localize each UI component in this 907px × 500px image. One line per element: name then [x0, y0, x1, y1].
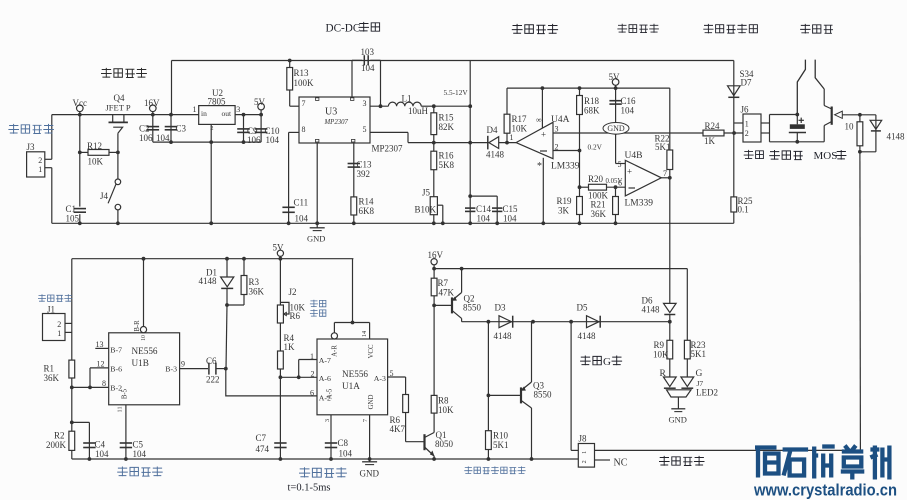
wire cap array left bar	[769, 115, 771, 142]
wire C11 branch	[288, 132, 290, 223]
svg-text:GND: GND	[360, 469, 380, 479]
svg-text:10K: 10K	[653, 350, 669, 360]
capacitor C1	[74, 208, 86, 210]
svg-text:C7: C7	[256, 433, 267, 443]
svg-text:12: 12	[97, 360, 105, 369]
svg-text:1K: 1K	[284, 342, 296, 352]
wire Q3 base	[488, 394, 521, 396]
svg-text:*: *	[537, 161, 542, 172]
wire gate net to J8 pin1	[570, 322, 572, 451]
svg-text:t=0.1-5ms: t=0.1-5ms	[288, 483, 331, 494]
wire J1 pin1 stub	[65, 331, 72, 333]
welding pin left	[797, 60, 805, 115]
svg-text:6K8: 6K8	[359, 206, 375, 216]
wire riser rail A to rail B	[171, 61, 173, 115]
label electronic switch	[101, 68, 147, 78]
svg-text:104: 104	[133, 449, 147, 459]
wire C6 to A-2	[226, 369, 317, 396]
svg-text:R8: R8	[438, 396, 449, 406]
svg-text:36K: 36K	[591, 209, 607, 219]
svg-text:MOS: MOS	[814, 150, 838, 162]
wire R17 branch	[506, 88, 508, 143]
svg-text:C15: C15	[503, 204, 519, 214]
wire C15 branch	[470, 195, 497, 197]
svg-text:105: 105	[66, 214, 80, 224]
svg-text:R1: R1	[44, 364, 55, 374]
resistor R18 68K	[577, 96, 583, 115]
capacitor C10 104	[255, 128, 268, 130]
svg-text:10K: 10K	[512, 124, 528, 134]
wire pin13 NC stub	[95, 347, 108, 349]
svg-text:1: 1	[57, 329, 61, 338]
label adjust (blue)	[310, 309, 326, 316]
svg-text:R2: R2	[54, 431, 65, 441]
watermark logo	[755, 448, 779, 478]
label foot switch (blue)	[38, 294, 72, 301]
svg-text:104: 104	[266, 135, 280, 145]
svg-text:10: 10	[845, 122, 855, 132]
wire gate resistor branch	[859, 115, 861, 152]
svg-text:5V: 5V	[273, 243, 285, 253]
wire divider to D4	[434, 142, 488, 144]
node R13 top	[288, 59, 292, 63]
svg-text:R20: R20	[588, 174, 604, 184]
wire VCC feed	[334, 322, 369, 324]
diode D1 4148	[221, 277, 234, 287]
label capacitor array	[769, 150, 803, 160]
terminal 5V bottom	[277, 250, 283, 256]
svg-text:GND: GND	[669, 415, 687, 425]
svg-text:11: 11	[117, 406, 124, 412]
label current-limit charging	[512, 24, 558, 34]
wire to R12	[80, 151, 88, 153]
svg-text:8: 8	[102, 379, 106, 388]
wire A-7/A-6 tie	[298, 360, 300, 378]
svg-text:C1: C1	[66, 204, 77, 214]
potentiometer J2 10K R6 delay adjust	[277, 305, 283, 323]
svg-text:J4: J4	[100, 191, 109, 201]
capacitor C5 104	[120, 442, 132, 444]
svg-text:B-7: B-7	[110, 346, 122, 355]
svg-text:5K1: 5K1	[655, 142, 671, 152]
wire U4A V+ power	[541, 88, 543, 128]
svg-text:5V: 5V	[609, 72, 621, 82]
node R17/D4	[505, 141, 509, 145]
svg-text:D7: D7	[741, 78, 752, 88]
diode D5 4148	[587, 316, 600, 328]
wire 5V reference rail	[507, 87, 670, 89]
svg-text:106: 106	[139, 133, 153, 143]
wire R4 to C7 to rail	[279, 369, 281, 459]
svg-text:104: 104	[621, 106, 635, 116]
resistor R4 1K	[278, 351, 284, 369]
wire 5V rail to U1A VCC	[352, 259, 354, 323]
svg-text:5K1: 5K1	[493, 440, 509, 450]
transistor Q4 JFET P	[112, 115, 114, 123]
svg-text:DC-DC: DC-DC	[326, 23, 361, 35]
terminal 5V ref	[612, 79, 619, 86]
svg-text:R3: R3	[249, 277, 260, 287]
wire D1 from 5V rail	[226, 259, 228, 278]
resistor R17 10K	[504, 114, 510, 133]
svg-text:100K: 100K	[294, 78, 315, 88]
welding pin right	[815, 60, 824, 89]
svg-text:U1B: U1B	[132, 358, 149, 368]
wire R22/D6 chain	[669, 88, 671, 303]
wire J6 pin1 stub	[734, 122, 743, 124]
svg-text:7805: 7805	[208, 97, 227, 107]
svg-text:1K: 1K	[704, 136, 716, 146]
wire C3 branch	[170, 115, 172, 143]
svg-text:C6: C6	[206, 356, 217, 366]
wire to A-6	[299, 376, 317, 378]
wire Q2 base	[434, 304, 452, 306]
svg-text:47K: 47K	[439, 288, 455, 298]
node Vcc on rail B	[78, 113, 82, 117]
svg-text:J2: J2	[289, 287, 297, 297]
inductor L1 10uH	[388, 102, 421, 106]
wire C13/R14 branch	[353, 143, 355, 223]
op-amp U4B LM339	[625, 160, 661, 196]
pin B-R reset circle	[140, 327, 146, 333]
svg-text:C16: C16	[621, 96, 637, 106]
svg-text:LM339: LM339	[625, 199, 654, 209]
svg-text:474: 474	[256, 444, 270, 454]
resistor R21 36K	[613, 197, 619, 215]
wire GND pin down	[369, 415, 371, 459]
svg-text:C11: C11	[294, 198, 309, 208]
wire R3 from 5V rail	[243, 259, 245, 276]
svg-text:2: 2	[745, 129, 749, 138]
svg-text:U3: U3	[325, 107, 337, 118]
wire J8 pin1 to gate net right	[595, 449, 861, 451]
capacitor C15 104	[492, 207, 502, 209]
svg-text:www.crystalradio.cn: www.crystalradio.cn	[753, 482, 897, 500]
node C3 top	[169, 113, 173, 117]
wire to A-7	[299, 359, 317, 361]
node 16V/C2	[151, 113, 155, 117]
svg-text:A-6: A-6	[319, 374, 331, 383]
Q4 gate arrow	[113, 127, 122, 133]
LED common cathode plate	[667, 390, 692, 397]
diode D7 S34	[728, 86, 741, 96]
svg-text:0.1: 0.1	[738, 205, 749, 215]
wire 16V rail bottom circuit	[434, 268, 687, 270]
svg-text:A-3: A-3	[374, 374, 386, 383]
resistor R20 100K	[589, 184, 607, 190]
wire U3 pin5 FB	[370, 131, 408, 133]
svg-text:4148: 4148	[642, 305, 661, 315]
capacitor C13 392	[348, 163, 360, 165]
svg-text:68K: 68K	[584, 106, 600, 116]
ground symbol under U3	[316, 223, 318, 228]
label welding pins	[800, 24, 833, 34]
svg-text:U4B: U4B	[625, 151, 643, 161]
svg-text:Vcc: Vcc	[73, 98, 88, 108]
resistor R15 82K	[431, 113, 437, 135]
transistor Q3 8550	[520, 387, 522, 403]
capacitor C7 474	[274, 442, 286, 444]
svg-text:NE556: NE556	[132, 346, 158, 356]
wire R10 branch	[487, 322, 489, 459]
resistor R25 0.1	[731, 197, 737, 212]
wire R21 branch	[615, 187, 617, 223]
svg-text:2: 2	[311, 370, 315, 379]
wire C10 branch	[260, 115, 262, 143]
svg-text:NE556: NE556	[342, 369, 368, 379]
wire FET gate drive	[462, 321, 670, 323]
svg-text:7: 7	[663, 169, 667, 178]
connector J8 status	[578, 444, 594, 468]
svg-text:7: 7	[362, 418, 369, 422]
svg-text:R21: R21	[591, 200, 606, 210]
resistor R3 36K	[241, 276, 247, 295]
wire cap ground bus	[153, 141, 261, 143]
capacitor C4 104	[83, 442, 95, 444]
wire U4B pin5 stub	[616, 163, 626, 165]
wire R18/R19 chain	[579, 88, 581, 223]
svg-text:1: 1	[510, 133, 514, 142]
capacitor C3 104	[165, 126, 178, 128]
svg-text:1: 1	[193, 105, 197, 114]
wire C9 branch	[243, 115, 245, 143]
capacitor C11 104	[282, 206, 294, 208]
capacitor C16 104	[609, 100, 621, 102]
wire U3 pin8 stub	[289, 131, 299, 133]
resistor R1 36K	[69, 360, 75, 378]
wire U3 pin3 to L1	[370, 105, 388, 107]
svg-text:2: 2	[581, 460, 588, 463]
svg-text:4148: 4148	[578, 331, 597, 341]
diode D4 4148	[487, 136, 489, 150]
wire C4 top stub	[72, 421, 90, 423]
svg-text:A-7: A-7	[319, 356, 331, 365]
svg-text:∞: ∞	[536, 116, 542, 125]
pin A-R circle	[331, 333, 337, 339]
wire J1/R1/R2 vertical	[71, 259, 73, 459]
terminal 16V	[150, 105, 157, 112]
wire to snubber diode	[860, 114, 876, 116]
wire ground rail C	[52, 222, 734, 224]
svg-text:D3: D3	[495, 303, 506, 313]
svg-text:B-3: B-3	[165, 365, 177, 374]
svg-text:G: G	[603, 356, 611, 368]
wire L1 out to riser	[434, 105, 470, 107]
label charge indicator	[617, 24, 659, 33]
svg-text:8550: 8550	[534, 390, 553, 400]
svg-text:36K: 36K	[249, 287, 265, 297]
svg-text:4148: 4148	[486, 150, 505, 160]
capacitor C6 222	[208, 363, 210, 375]
wire C16/GND/pin5 chain	[615, 88, 617, 163]
svg-text:R13: R13	[294, 68, 310, 78]
svg-text:106: 106	[247, 135, 261, 145]
wire to B-6	[90, 367, 109, 369]
wire U2 out to 5V node	[235, 114, 261, 116]
diode 4148 snubber	[870, 120, 882, 129]
wire B-6/B-2 tie	[89, 368, 91, 388]
svg-text:R14: R14	[359, 197, 375, 207]
node 5V/C10	[259, 113, 263, 117]
wire J8 pin2 NC stub	[595, 459, 611, 461]
svg-text:MP2307: MP2307	[372, 144, 404, 154]
label FET G gate	[580, 356, 601, 366]
wire MOS gate	[842, 114, 860, 116]
switch J4 lever	[108, 184, 116, 203]
svg-text:10K: 10K	[438, 405, 454, 415]
svg-text:8550: 8550	[463, 303, 482, 313]
svg-text:R9: R9	[654, 340, 665, 350]
wire to J4	[117, 152, 119, 179]
svg-text:6: 6	[310, 389, 314, 398]
svg-text:14: 14	[361, 331, 368, 337]
svg-text:5: 5	[363, 125, 367, 134]
svg-text:4148: 4148	[494, 331, 513, 341]
label charging	[744, 150, 764, 159]
svg-text:C13: C13	[357, 160, 373, 170]
resistor R10 5K1	[486, 431, 492, 450]
svg-text:5: 5	[618, 160, 622, 169]
svg-text:R: R	[660, 369, 667, 379]
svg-text:GND: GND	[607, 124, 625, 133]
svg-text:in: in	[201, 109, 207, 118]
wire Q4 gate down	[117, 133, 119, 152]
wire rail B Vcc/16V	[52, 114, 199, 116]
wire VCC pin stub	[369, 323, 371, 340]
label DC power supply (blue)	[8, 124, 54, 134]
wire riser rail A to ground via C14	[469, 61, 471, 224]
wire A-3 output	[388, 376, 406, 378]
svg-text:B-R: B-R	[134, 320, 141, 332]
svg-text:R18: R18	[584, 96, 600, 106]
svg-text:104: 104	[477, 214, 491, 224]
wire R15/R16 divider chain	[433, 106, 435, 223]
resistor R2 200K	[69, 431, 75, 450]
wire U3 gnd pin	[316, 143, 318, 223]
svg-text:R19: R19	[557, 196, 573, 206]
wire U4A V- power	[542, 158, 544, 224]
svg-text:+: +	[541, 130, 546, 140]
svg-text:GND: GND	[307, 234, 325, 244]
label delay (blue)	[310, 300, 326, 307]
node C6/D1/A-2	[224, 367, 228, 371]
svg-text:R17: R17	[512, 114, 528, 124]
resistor R9 10K	[667, 340, 673, 359]
wire B-5 pin to C5	[125, 405, 127, 459]
svg-text:R15: R15	[439, 113, 455, 123]
svg-text:9: 9	[181, 360, 185, 369]
wire U2 gnd pin down	[210, 124, 212, 223]
svg-text:13: 13	[96, 340, 104, 349]
wire J3 pin1 to ground rail	[51, 168, 53, 224]
svg-text:R7: R7	[438, 278, 449, 288]
wire ground/output rail bottom	[72, 458, 579, 460]
wire R23 branch	[686, 269, 688, 377]
wire to R20	[580, 186, 589, 188]
label debounce circuit (blue)	[117, 467, 163, 477]
svg-text:G: G	[696, 369, 703, 379]
svg-text:LM339: LM339	[551, 162, 580, 172]
switch J4 bottom contact	[115, 204, 121, 210]
svg-text:C8: C8	[338, 438, 349, 448]
wire 5V rail bottom circuit	[72, 258, 354, 260]
label trigger delay (blue)	[299, 467, 347, 477]
svg-text:2: 2	[57, 320, 61, 329]
svg-text:5K8: 5K8	[439, 160, 455, 170]
svg-text:10uH: 10uH	[408, 106, 429, 116]
svg-text:222: 222	[206, 375, 220, 385]
wire C1 to ground	[79, 214, 81, 223]
svg-text:C14: C14	[476, 204, 492, 214]
terminal Vcc	[77, 105, 84, 112]
svg-text:J1: J1	[47, 305, 55, 315]
resistor R12 10K	[88, 150, 109, 156]
resistor R23 5K1	[684, 340, 690, 359]
svg-text:200K: 200K	[46, 440, 67, 450]
svg-text:C5: C5	[133, 440, 144, 450]
wire B-3 out pin9	[180, 368, 208, 370]
wire J3 pin2 stub	[45, 158, 52, 160]
svg-text:104: 104	[361, 63, 375, 73]
svg-text:R10: R10	[493, 431, 509, 441]
wire to Q1 base	[406, 441, 425, 443]
svg-text:3: 3	[363, 99, 367, 108]
wire U4A pin2	[553, 150, 580, 152]
transistor Q1 8050	[423, 434, 425, 450]
wire J6 pin1 to cap array	[761, 122, 770, 124]
svg-text:C2: C2	[139, 124, 150, 134]
svg-text:C4: C4	[95, 440, 106, 450]
svg-text:LED2: LED2	[696, 388, 718, 398]
svg-text:1: 1	[581, 451, 588, 454]
svg-text:3: 3	[555, 125, 559, 134]
svg-text:J6: J6	[741, 105, 750, 115]
svg-text:B-5: B-5	[122, 388, 129, 399]
svg-text:U4A: U4A	[551, 115, 570, 125]
svg-text:4148: 4148	[887, 132, 906, 142]
resistor R22 5K1	[667, 150, 673, 170]
svg-text:B10K: B10K	[415, 205, 437, 215]
svg-text:B-2: B-2	[110, 384, 122, 393]
LED2 dual R/G	[663, 377, 676, 387]
potentiometer J5 B10K	[430, 197, 437, 215]
svg-text:8050: 8050	[435, 439, 454, 449]
terminal 16V bottom	[431, 259, 437, 265]
wire R13 branch	[289, 61, 291, 107]
svg-text:J5: J5	[422, 188, 431, 198]
resistor R16 5K8	[431, 151, 437, 170]
resistor R8 10K	[431, 395, 437, 413]
wire U4A out pin3 to J6	[553, 132, 743, 134]
svg-text:R16: R16	[439, 151, 455, 161]
resistor R7 47K	[431, 278, 437, 296]
svg-text:L1: L1	[402, 94, 412, 104]
svg-text:1: 1	[310, 352, 314, 361]
regulator U3 MP2307	[299, 97, 370, 143]
transistor Q2 8550	[451, 297, 453, 313]
wire to U3 pin7	[290, 105, 299, 107]
wire Vcc vertical down	[79, 115, 81, 207]
connector J6	[743, 114, 761, 142]
svg-text:5V: 5V	[254, 97, 266, 107]
label status indicator	[659, 456, 705, 466]
svg-text:1: 1	[745, 120, 749, 129]
svg-text:104: 104	[339, 449, 353, 459]
svg-text:4148: 4148	[199, 276, 218, 286]
wire D6 to R9/LED	[669, 315, 671, 378]
svg-text:8: 8	[302, 125, 306, 134]
svg-text:NC: NC	[614, 458, 628, 469]
